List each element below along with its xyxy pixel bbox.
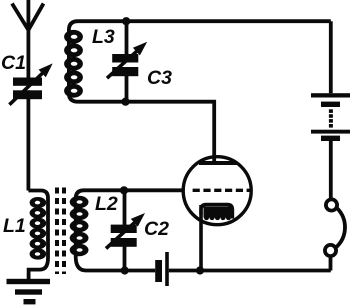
svg-text:L3: L3: [92, 26, 115, 48]
svg-text:C1: C1: [1, 52, 26, 74]
svg-text:L2: L2: [95, 193, 118, 215]
svg-text:L1: L1: [3, 215, 26, 237]
svg-text:C2: C2: [144, 218, 169, 240]
svg-text:C3: C3: [147, 67, 172, 89]
